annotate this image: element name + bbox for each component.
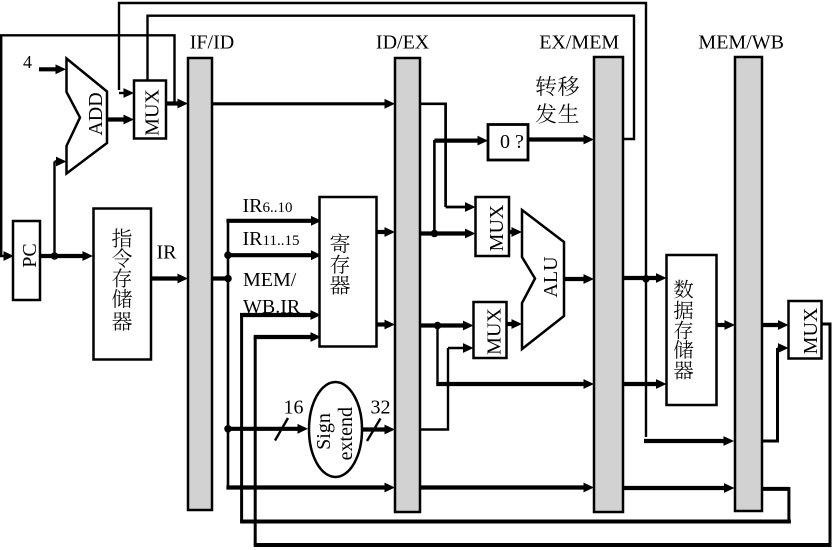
svg-text:IR: IR <box>157 242 178 264</box>
wire B value ID/EX to lower MUX <box>420 323 466 327</box>
wire IR stub from IF/ID <box>212 276 229 280</box>
wire ADD output to IF MUX <box>107 117 126 121</box>
wire IR vertical bus <box>227 220 230 488</box>
wire MEM/WB.IR feedback to register file <box>762 487 789 491</box>
svg-text:16: 16 <box>284 397 304 419</box>
slash 16-bit width mark <box>275 418 288 441</box>
slash 32-bit width mark <box>367 419 381 442</box>
svg-text:MEM/WB: MEM/WB <box>698 31 784 53</box>
wire register A output to ID/EX <box>377 230 388 234</box>
register PC <box>13 221 40 300</box>
svg-text:IR11..15: IR11..15 <box>243 228 300 250</box>
wire NPC from IF/ID to ID/EX <box>212 102 387 105</box>
wire immediate to sign-extend <box>226 427 300 431</box>
pipeline register EX/MEM (gray bar) <box>594 57 623 512</box>
alu ALU <box>522 210 564 349</box>
svg-text:MUX: MUX <box>800 307 822 354</box>
sign extender (Sign extend) <box>309 382 362 477</box>
wire B value down to EX/MEM <box>436 326 438 385</box>
junction dot B value <box>434 322 442 330</box>
wire branch-condition feedback: EX/MEM to IF MUX (top line 2) <box>148 16 635 139</box>
wire instruction memory output IR to IF/ID <box>150 276 180 280</box>
svg-text:EX/MEM: EX/MEM <box>539 31 619 53</box>
wire PC value up to ADD <box>53 162 55 257</box>
mux ALU input B <box>474 302 507 358</box>
svg-text:MUX: MUX <box>142 89 164 136</box>
wire ALU result MEM/WB to WB MUX <box>762 348 778 441</box>
wire IR EX/MEM to MEM/WB (bottom) <box>623 486 727 490</box>
svg-text:32: 32 <box>371 397 391 419</box>
wire memory data MEM/WB to WB MUX <box>762 323 781 327</box>
wire write-back data to register file <box>254 337 257 545</box>
junction dot IR/IR11..15 <box>224 251 232 259</box>
mux ALU input A <box>476 197 510 256</box>
wire NPC from ID/EX to upper MUX <box>420 104 446 207</box>
wire A value up to zero tester <box>433 140 436 234</box>
svg-text:MEM/: MEM/ <box>243 269 297 291</box>
zero tester box 0? <box>488 125 528 161</box>
svg-text:4: 4 <box>23 52 32 72</box>
svg-text:ADD: ADD <box>85 92 107 135</box>
label 转移发生 (branch taken) <box>536 76 556 96</box>
wire MEM/WB.IR write-register to register file <box>240 315 243 522</box>
wire zero tester output to EX/MEM <box>528 137 586 141</box>
wire IR6..10 to register file <box>226 219 313 223</box>
junction dot IR/sign-extend <box>224 425 232 433</box>
data memory (数据存储器) <box>667 255 717 405</box>
junction dot on ALU-result line at EX/MEM output <box>642 275 650 283</box>
svg-text:IF/ID: IF/ID <box>190 32 234 54</box>
wire ALU output to EX/MEM <box>564 277 586 281</box>
wire upper MUX to ALU <box>509 230 514 234</box>
wire ALU result EX/MEM to data memory <box>623 276 659 280</box>
register file (寄存器) <box>320 197 377 347</box>
wire register B output to ID/EX <box>377 322 388 326</box>
pipeline register IF/ID (gray bar) <box>188 58 212 510</box>
wire data memory output to MEM/WB <box>717 323 728 327</box>
wire ALU result EX/MEM to MEM/WB (bottom of vertical, thick arrow) <box>644 439 726 443</box>
wire A value ID/EX to upper MUX <box>420 231 468 235</box>
svg-text:ID/EX: ID/EX <box>376 31 430 53</box>
svg-text:PC: PC <box>19 243 41 267</box>
svg-text:MUX: MUX <box>484 308 506 355</box>
wire IF MUX output to IF/ID <box>166 101 180 105</box>
wire new-PC feedback: IF MUX output to PC (line 3) <box>1 35 174 256</box>
wire lower MUX to ALU <box>507 322 515 326</box>
svg-text:MUX: MUX <box>486 204 508 251</box>
wire PC to instruction memory <box>40 254 85 258</box>
mux IF (next PC select) <box>134 81 166 139</box>
wire IR to ID/EX (bottom) <box>226 485 387 489</box>
wire sign-extend output to ID/EX <box>362 427 387 431</box>
wire IR ID/EX to EX/MEM (bottom) <box>420 485 586 489</box>
wire immediate ID/EX to lower MUX <box>420 348 448 430</box>
svg-text:0 ?: 0 ? <box>500 131 524 153</box>
wire branch-target feedback: EX/MEM ALU result to IF MUX (top line 1) <box>119 3 646 437</box>
junction dot IR stub <box>224 275 232 283</box>
pipeline register ID/EX (gray bar) <box>395 58 420 512</box>
mux write-back select <box>789 301 822 359</box>
wire WB MUX output feedback to register file <box>822 323 831 326</box>
wire constant-4 to ADD <box>39 67 58 71</box>
svg-text:extend: extend <box>335 407 357 460</box>
svg-text:IR6..10: IR6..10 <box>243 195 293 217</box>
wire IR11..15 to register file <box>226 253 313 257</box>
junction dot A value <box>431 230 439 238</box>
junction dot on PC output line <box>51 252 59 260</box>
wire B value EX/MEM to data memory <box>623 382 659 386</box>
svg-text:ALU: ALU <box>540 256 562 298</box>
pipeline register MEM/WB (gray bar) <box>735 57 762 511</box>
instruction memory (指令存储器) <box>94 209 152 360</box>
adder ADD (PC+4) <box>67 59 108 174</box>
svg-text:Sign: Sign <box>313 413 335 450</box>
